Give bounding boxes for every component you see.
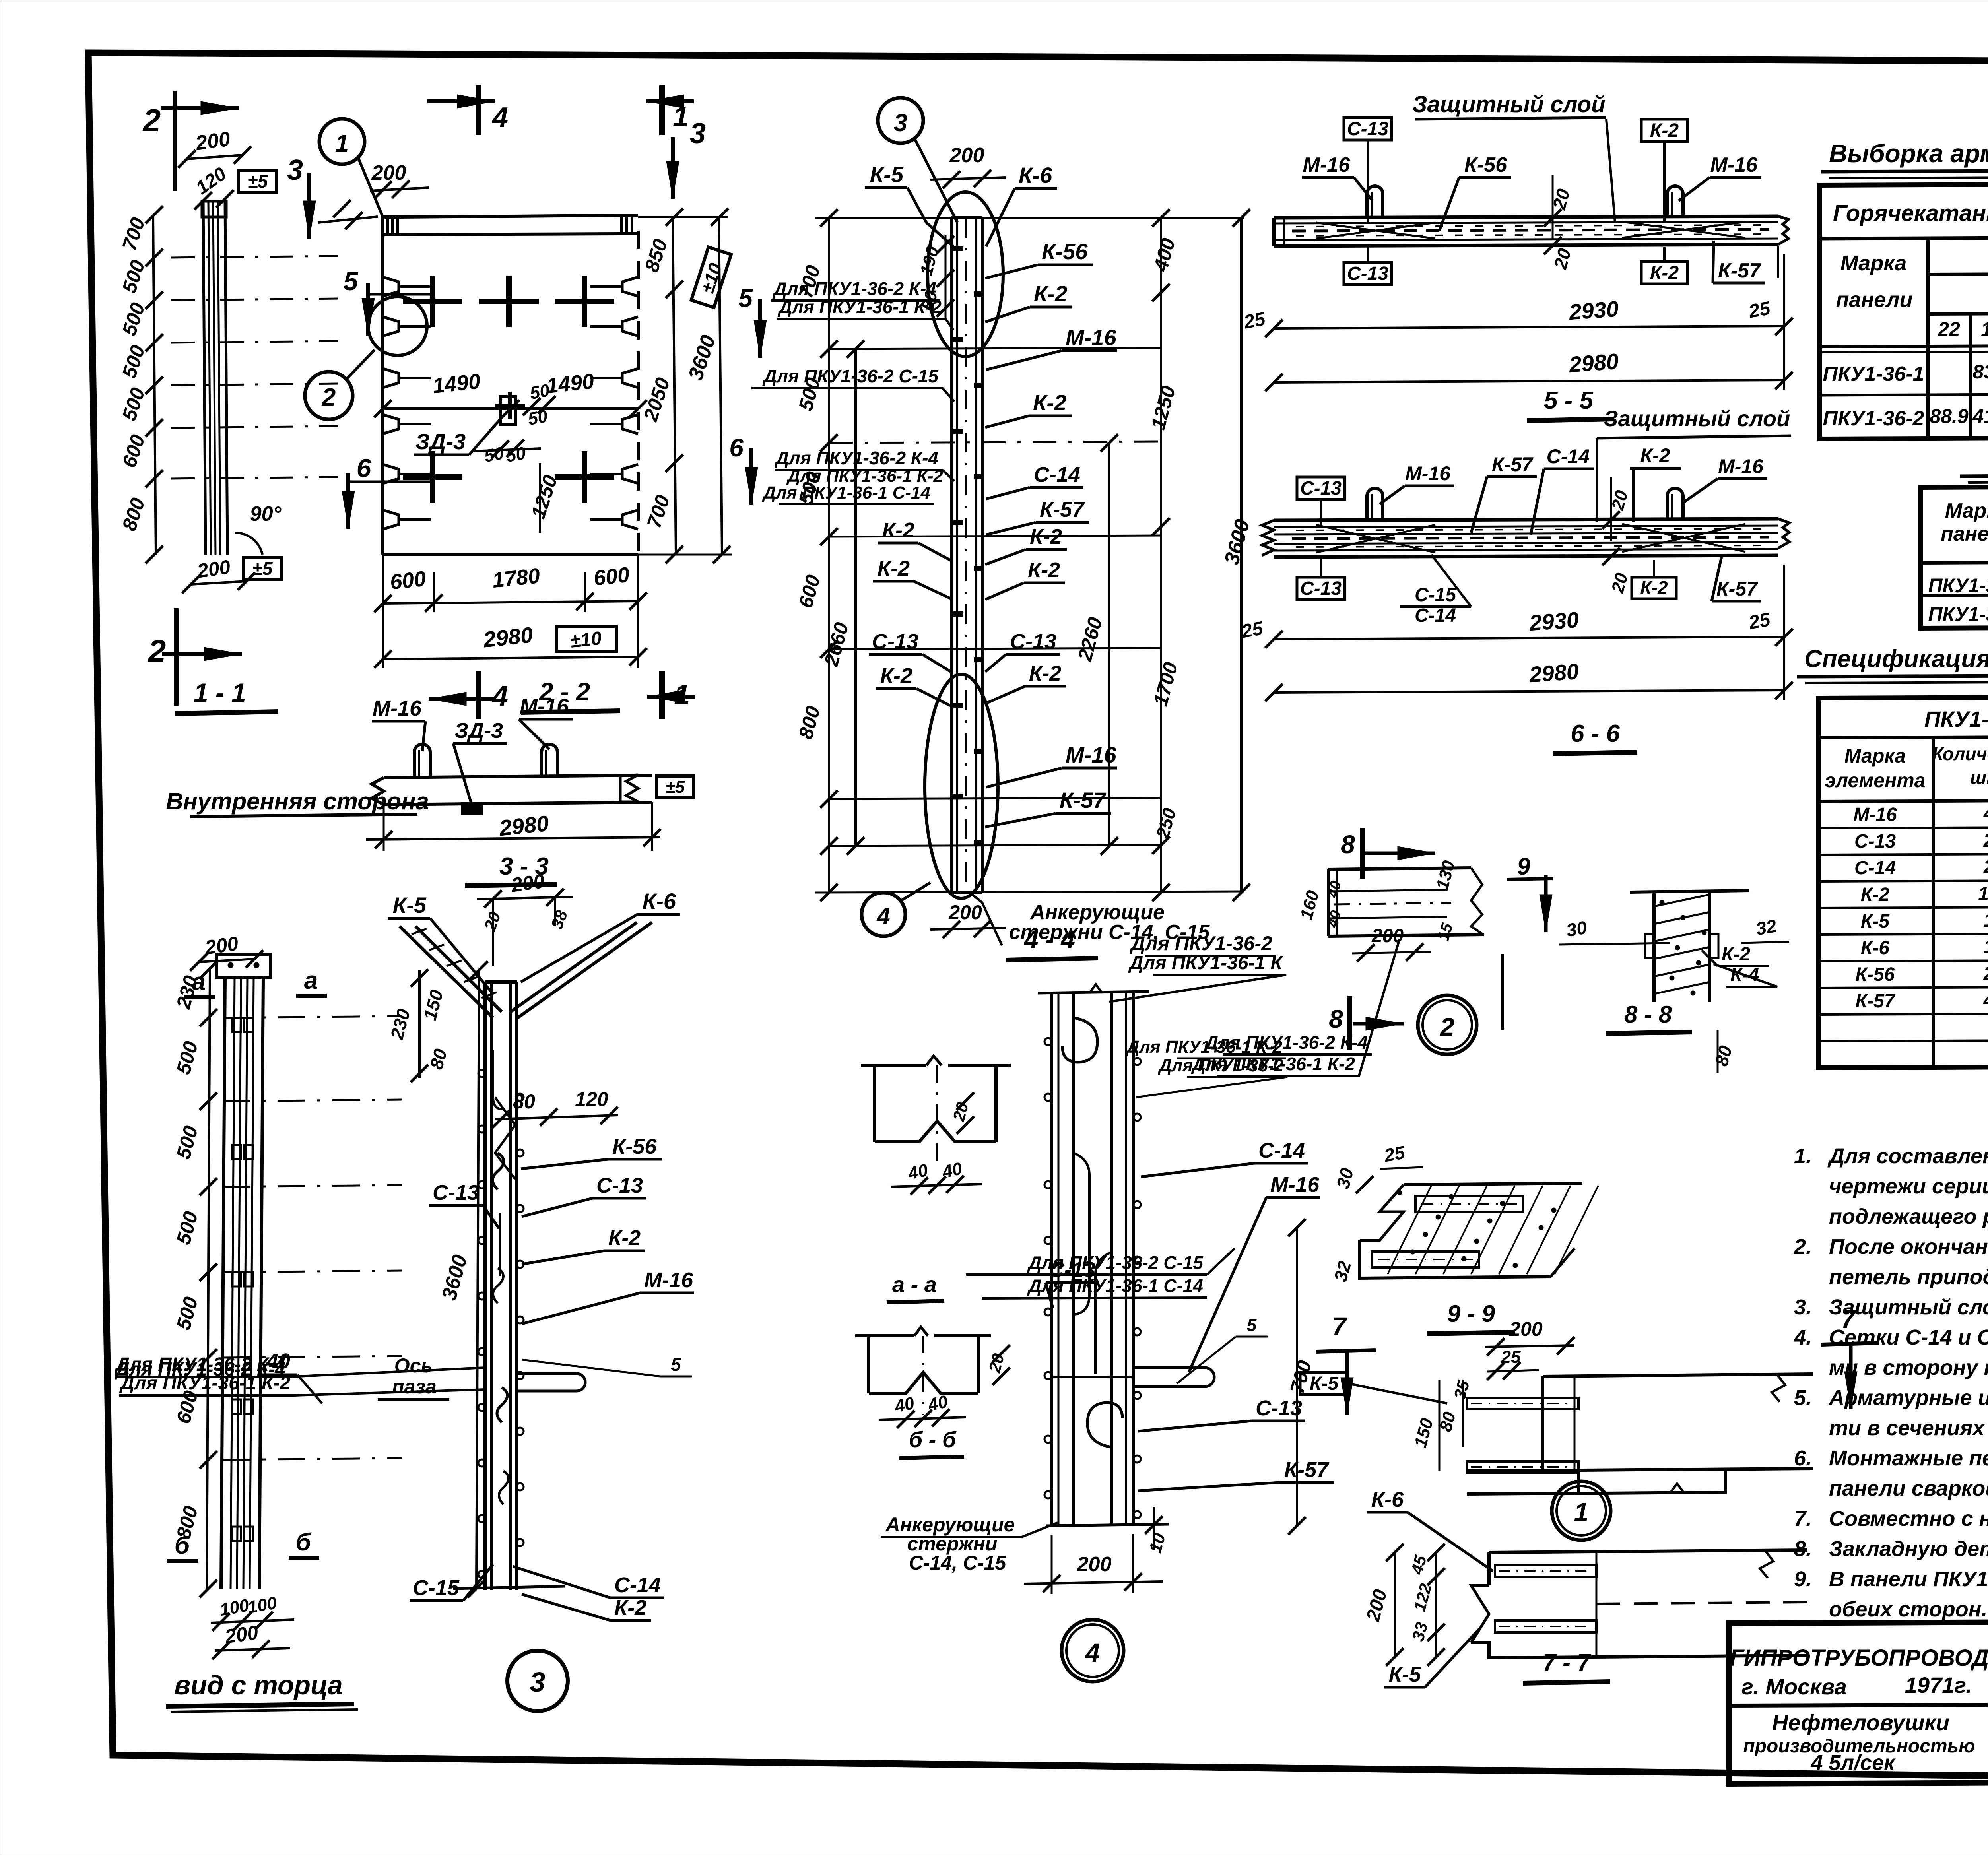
svg-text:С-14: С-14: [1034, 463, 1080, 487]
svg-text:Защитный слой бетона для армат: Защитный слой бетона для арматуры - 20мм…: [1829, 1295, 1988, 1319]
svg-text:6.: 6.: [1794, 1446, 1812, 1470]
view 3-3 bar: [384, 775, 652, 778]
svg-text:С-15: С-15: [1415, 584, 1456, 605]
table C sub header columns: [1932, 737, 1935, 1067]
svg-text:С-14: С-14: [1854, 858, 1896, 879]
svg-text:С-13: С-13: [1049, 1258, 1095, 1282]
svg-text:1490: 1490: [431, 369, 481, 398]
svg-text:9.: 9.: [1794, 1567, 1812, 1591]
section 4-4 panel strip: [950, 218, 953, 893]
svg-text:петель приподнимаются и поверх: петель приподнимаются и поверхность бето…: [1829, 1265, 1988, 1289]
detail 3 left arm: [400, 926, 493, 1018]
svg-text:Марка: Марка: [1844, 745, 1906, 767]
detail circle 1 callout: [319, 119, 365, 164]
svg-text:2: 2: [1983, 963, 1988, 984]
svg-text:Совместно с настоящим листом с: Совместно с настоящим листом см. лист АС…: [1829, 1507, 1988, 1531]
svg-text:1490: 1490: [545, 369, 595, 398]
svg-text:панели: панели: [1941, 522, 1988, 545]
detail 3 upper left dims 230 150 80: [418, 970, 421, 1078]
plan bottom dim 2980 ±10: [383, 657, 638, 659]
svg-text:22: 22: [1938, 318, 1960, 340]
detail 4 base: [1046, 1524, 1169, 1526]
plan view 2-2 panel outline: [381, 217, 384, 555]
plan left edge keys: [383, 277, 399, 296]
svg-text:ти в сечениях панели, условно: ти в сечениях панели, условно раздвинуты…: [1829, 1416, 1988, 1440]
lifting loop left on 3-3 bar: [414, 744, 430, 778]
detail 4 circle callout: [1062, 1620, 1124, 1682]
svg-text:83.0: 83.0: [1972, 361, 1988, 383]
svg-text:90°: 90°: [250, 503, 282, 526]
svg-text:200: 200: [194, 127, 232, 155]
svg-text:1: 1: [1574, 1497, 1589, 1527]
svg-text:К-57: К-57: [1492, 453, 1534, 475]
svg-text:25: 25: [1747, 298, 1772, 322]
detail 4 dim 700: [1296, 1228, 1298, 1526]
table C data rows left: [1818, 827, 1988, 828]
svg-text:С-14: С-14: [1415, 605, 1456, 626]
svg-text:5: 5: [1247, 1316, 1257, 1335]
svg-text:30: 30: [1565, 917, 1589, 941]
svg-text:1: 1: [674, 679, 690, 711]
svg-text:К-57: К-57: [1718, 259, 1761, 282]
svg-text:С-13: С-13: [1300, 578, 1342, 599]
detail 7 upper drawing: [1543, 1374, 1813, 1376]
plan interior crosses row 2: [403, 474, 462, 480]
svg-text:ПКУ1-36-2: ПКУ1-36-2: [1928, 603, 1988, 625]
svg-text:С-14: С-14: [614, 1573, 661, 1597]
embed plate ZD-3 in plan: [500, 397, 515, 425]
svg-text:Защитный слой: Защитный слой: [1412, 91, 1605, 117]
svg-text:М-16: М-16: [1270, 1173, 1320, 1197]
svg-text:3: 3: [530, 1667, 546, 1698]
lifting loops on 6-6: [1367, 488, 1383, 520]
svg-text:С-13: С-13: [1347, 118, 1388, 140]
table A header bottom double line: [1820, 344, 1988, 347]
detail b-b drawing: [855, 1334, 914, 1337]
svg-text:С-13: С-13: [1854, 831, 1896, 852]
svg-text:К-5: К-5: [1389, 1663, 1421, 1686]
svg-text:С-13: С-13: [433, 1181, 479, 1205]
label K-2 top of 5-5: [1641, 119, 1687, 142]
svg-text:600: 600: [592, 563, 631, 590]
svg-text:Защитный слой: Защитный слой: [1604, 406, 1790, 431]
section 4-4 chain 2660: [854, 349, 857, 846]
svg-text:К-2: К-2: [1650, 120, 1679, 141]
section 4-4 chain 3600: [1240, 218, 1242, 893]
svg-text:1971г.: 1971г.: [1905, 1673, 1972, 1698]
svg-text:б: б: [296, 1529, 312, 1556]
svg-text:К-2: К-2: [1650, 262, 1679, 283]
svg-text:25: 25: [1747, 609, 1772, 634]
svg-text:Арматурные изделия, располагае: Арматурные изделия, располагаемые в одно…: [1828, 1386, 1988, 1410]
label S-13 bottom of 5-5: [1344, 262, 1392, 285]
svg-text:4: 4: [1085, 1638, 1100, 1667]
svg-text:3: 3: [690, 118, 706, 149]
svg-text:К-5: К-5: [1861, 911, 1890, 932]
svg-text:4: 4: [1983, 803, 1988, 825]
svg-text:1: 1: [335, 130, 349, 157]
label S-13 top of 6-6: [1297, 477, 1345, 499]
svg-text:Монтажные петли прихватываются: Монтажные петли прихватываются к верхней…: [1829, 1446, 1988, 1470]
svg-text:К-2: К-2: [1033, 390, 1066, 415]
svg-text:К-2: К-2: [1640, 444, 1670, 467]
M-16 loop on cage: [517, 1374, 585, 1391]
svg-text:2: 2: [1440, 1013, 1454, 1041]
svg-text:ГИПРОТРУБОПРОВОД: ГИПРОТРУБОПРОВОД: [1730, 1645, 1988, 1671]
svg-text:3.: 3.: [1794, 1295, 1812, 1319]
svg-text:4: 4: [1983, 990, 1988, 1011]
svg-text:К-57: К-57: [1856, 991, 1896, 1012]
svg-text:2930: 2930: [1528, 607, 1580, 636]
svg-text:К-2: К-2: [880, 664, 912, 688]
svg-text:М-16: М-16: [644, 1268, 693, 1292]
svg-text:К-6: К-6: [1371, 1488, 1404, 1512]
label K-5 of 7 upper: [1300, 1372, 1348, 1395]
svg-text:ПКУ1-36-1: ПКУ1-36-1: [1928, 574, 1988, 597]
svg-text:200: 200: [1509, 1318, 1543, 1340]
section 4-4 chain 2260: [1108, 443, 1110, 846]
svg-text:К-2: К-2: [1029, 662, 1061, 685]
dim 2980 of 5-5: [1274, 380, 1784, 382]
plan top strip: [400, 215, 620, 217]
detail oval top of 4-4: [928, 192, 1003, 357]
svg-text:Для составления листов АС-25,: Для составления листов АС-25, АС-26 испо…: [1827, 1144, 1988, 1168]
svg-text:К-5: К-5: [870, 162, 904, 187]
end view splice marks: [232, 1018, 241, 1032]
svg-text:50: 50: [526, 406, 549, 429]
svg-text:панели: панели: [1836, 288, 1913, 312]
svg-text:8: 8: [1341, 830, 1355, 859]
svg-text:К-2: К-2: [1034, 281, 1067, 306]
svg-text:4 5л/сек: 4 5л/сек: [1810, 1751, 1896, 1775]
svg-text:Сетки С-14 и С-15 устанавливат: Сетки С-14 и С-15 устанавливать анкерующ…: [1829, 1325, 1988, 1349]
horizontal level lines of 1-1: [171, 256, 338, 258]
plan dim chain 3600: [719, 217, 722, 555]
svg-text:8: 8: [1329, 1005, 1343, 1033]
dim 2930 of 6-6: [1274, 637, 1784, 639]
section marker 1 top: [659, 85, 665, 135]
svg-text:М-16: М-16: [373, 697, 422, 720]
plan interior crosses row 1: [403, 299, 462, 304]
table B frame: [1921, 486, 1988, 628]
svg-text:К-5: К-5: [1310, 1373, 1339, 1394]
svg-text:25: 25: [1239, 618, 1265, 642]
svg-text:М-16: М-16: [1405, 462, 1451, 485]
section 6-6 bar: [1274, 519, 1778, 520]
end view left dim chain: [207, 970, 210, 1589]
tolerance box ±5 at 3-3 end: [657, 776, 693, 797]
detail a-a drawing: [861, 1064, 926, 1067]
section 6-6 splice X marks: [1316, 525, 1435, 553]
svg-text:элемента: элемента: [1825, 769, 1925, 792]
end view strip body: [221, 977, 225, 1589]
table C frame: [1818, 696, 1988, 1068]
svg-text:200: 200: [195, 556, 232, 582]
svg-text:7: 7: [1332, 1312, 1347, 1341]
svg-text:Для ПКУ1-36-1 К-2: Для ПКУ1-36-1 К-2: [1191, 1054, 1355, 1074]
table A frame: [1820, 183, 1988, 439]
svg-text:М-16: М-16: [1066, 325, 1116, 350]
svg-text:1: 1: [673, 101, 689, 133]
svg-text:К-2: К-2: [882, 518, 914, 542]
svg-text:4: 4: [876, 903, 890, 929]
svg-text:1: 1: [1984, 910, 1988, 931]
svg-text:8.: 8.: [1794, 1537, 1812, 1561]
lifting loop right on 3-3 bar: [542, 744, 557, 778]
svg-text:С-14: С-14: [1547, 445, 1590, 468]
svg-text:1780: 1780: [491, 564, 541, 592]
svg-text:С-13: С-13: [1256, 1396, 1302, 1420]
svg-text:К-2: К-2: [1028, 558, 1060, 582]
svg-text:2: 2: [1983, 830, 1988, 851]
svg-text:М-16: М-16: [1710, 153, 1758, 177]
svg-text:7.: 7.: [1794, 1507, 1812, 1531]
svg-text:9: 9: [1517, 853, 1530, 880]
section 8-8 wall: [1630, 891, 1749, 892]
svg-text:С-13: С-13: [596, 1174, 643, 1197]
svg-text:обеих сторон.: обеих сторон.: [1829, 1597, 1987, 1621]
dim 2930 of 5-5: [1274, 326, 1784, 328]
svg-text:М-16: М-16: [1853, 804, 1897, 825]
svg-text:200: 200: [509, 870, 546, 896]
svg-text:Количество: Количество: [1932, 743, 1988, 764]
svg-text:ПКУ1- 36-1: ПКУ1- 36-1: [1924, 706, 1988, 732]
tolerance box ±5 bottom: [243, 557, 282, 580]
plan bottom dim 600 1780 600: [383, 601, 638, 603]
plan right edge keys: [622, 277, 638, 296]
svg-text:Марка: Марка: [1945, 499, 1988, 522]
svg-text:2: 2: [1983, 857, 1988, 878]
detail 3 circle callout: [507, 1651, 568, 1711]
svg-text:4: 4: [491, 102, 508, 134]
svg-text:чертежи серии 3.900-2 выпуска: чертежи серии 3.900-2 выпуска 2, а также…: [1829, 1174, 1988, 1198]
svg-text:9 - 9: 9 - 9: [1447, 1300, 1495, 1327]
plan right dim chain 850 2050 700: [673, 217, 676, 555]
svg-text:М-16: М-16: [520, 695, 569, 718]
svg-text:ПКУ1-36-2: ПКУ1-36-2: [1823, 407, 1924, 430]
svg-text:паза: паза: [392, 1376, 437, 1398]
svg-text:32: 32: [1755, 915, 1778, 939]
svg-text:6 - 6: 6 - 6: [1571, 720, 1620, 747]
detail circle 3 callout top: [878, 98, 923, 143]
svg-text:88.9: 88.9: [1930, 405, 1969, 427]
svg-text:Ось: Ось: [394, 1354, 433, 1377]
1-1 strip panel edge view: [203, 201, 206, 555]
end view strip head: [217, 954, 270, 977]
svg-text:К-2: К-2: [614, 1596, 646, 1620]
svg-text:К-2: К-2: [608, 1226, 641, 1250]
svg-text:К-56: К-56: [612, 1135, 657, 1158]
section 4-4 guide lines: [829, 348, 1161, 349]
svg-text:С-14: С-14: [1258, 1139, 1305, 1162]
svg-text:К-2: К-2: [1722, 944, 1750, 965]
svg-text:5: 5: [344, 266, 359, 296]
svg-text:7 - 7: 7 - 7: [1543, 1649, 1592, 1676]
table A column lines: [1969, 314, 1972, 437]
svg-text:±10: ±10: [569, 628, 603, 652]
svg-text:М-16: М-16: [1718, 455, 1764, 477]
table B header bottom: [1921, 561, 1988, 563]
svg-text:ЗД-3: ЗД-3: [415, 429, 466, 454]
svg-text:10: 10: [1978, 883, 1988, 904]
svg-text:К-2: К-2: [1640, 577, 1668, 598]
svg-text:б - б: б - б: [909, 1427, 956, 1452]
svg-text:К-2: К-2: [1861, 884, 1889, 905]
svg-text:1 - 1: 1 - 1: [194, 678, 246, 707]
label S-13 top of 5-5: [1344, 118, 1392, 140]
svg-text:1.: 1.: [1794, 1144, 1812, 1168]
svg-text:После окончания бетонирования: После окончания бетонирования изделия ко…: [1829, 1235, 1988, 1259]
svg-text:Марка: Марка: [1840, 251, 1907, 275]
svg-text:5.: 5.: [1794, 1386, 1812, 1410]
dim 200 top of 1-1 strip: [187, 155, 243, 159]
tolerance box ±10 rotated: [691, 247, 731, 308]
embed plate under 3-3 bar: [462, 803, 481, 814]
svg-text:41.5: 41.5: [1972, 405, 1988, 427]
section 9 cut line: [1501, 954, 1504, 1030]
detail circle 1 callout (7-7): [1552, 1481, 1611, 1540]
end view level lines: [223, 1016, 402, 1018]
detail 4 top caps: [1038, 992, 1149, 993]
svg-text:5: 5: [738, 284, 753, 312]
detail circle 2 callout: [305, 372, 353, 419]
svg-text:ПКУ1-36-1: ПКУ1-36-1: [1823, 363, 1924, 386]
svg-text:б: б: [175, 1532, 190, 1559]
svg-text:С-14, С-15: С-14, С-15: [909, 1552, 1007, 1574]
label K-2 bottom of 6-6: [1632, 577, 1676, 599]
svg-text:3: 3: [287, 154, 303, 186]
plan fragment at 8: [1328, 868, 1471, 869]
section 9-9 hatch: [1388, 1186, 1431, 1274]
svg-text:Для ПКУ1-36-2: Для ПКУ1-36-2: [1129, 932, 1272, 955]
end view right dim 3600: [476, 970, 479, 1589]
svg-text:Спецификация марок арматурных: Спецификация марок арматурных изделий на…: [1804, 645, 1988, 673]
svg-text:панели сваркой или привязывают: панели сваркой или привязываются проволк…: [1829, 1477, 1988, 1500]
detail 3 cage hooks and studs: [493, 1153, 504, 1189]
svg-text:Закладную деталь маркиЗД-3 см.: Закладную деталь маркиЗД-3 см. на листе …: [1829, 1537, 1988, 1561]
detail 4 studs: [1044, 1038, 1052, 1045]
svg-text:Нефтеловушки: Нефтеловушки: [1772, 1710, 1949, 1735]
dim 2980 of 6-6: [1274, 690, 1784, 693]
svg-text:2980: 2980: [1568, 349, 1619, 377]
section 5-5 bar: [1274, 216, 1778, 218]
svg-text:а - а: а - а: [892, 1272, 937, 1297]
label K-2 bottom of 5-5: [1641, 262, 1687, 284]
svg-text:3: 3: [894, 109, 907, 137]
plan small cross mid: [495, 404, 525, 407]
section marker 4 bottom: [476, 671, 481, 719]
svg-text:1: 1: [1984, 937, 1988, 958]
svg-text:С-13: С-13: [1300, 478, 1342, 499]
svg-text:Для ПКУ1-36-2 К-4: Для ПКУ1-36-2 К-4: [1204, 1032, 1368, 1053]
svg-text:Для ПКУ1-36-1 К: Для ПКУ1-36-1 К: [1128, 953, 1284, 974]
svg-text:8 - 8: 8 - 8: [1624, 1001, 1672, 1028]
detail circle 2 callout (8): [1418, 995, 1477, 1054]
svg-text:Внутренняя сторона: Внутренняя сторона: [166, 788, 429, 815]
svg-text:2930: 2930: [1568, 296, 1619, 325]
svg-text:±5: ±5: [248, 171, 268, 192]
section 8-8 small rebars: [1645, 934, 1654, 958]
svg-text:5 - 5: 5 - 5: [1544, 387, 1594, 414]
detail oval bottom of 4-4: [925, 674, 998, 898]
section 4-4 rebar marks: [954, 246, 962, 250]
svg-text:шт.: шт.: [1970, 767, 1988, 788]
svg-text:6: 6: [729, 433, 744, 462]
svg-text:а: а: [304, 967, 318, 994]
svg-text:4.: 4.: [1794, 1325, 1812, 1349]
svg-text:16: 16: [1981, 318, 1988, 340]
detail 3 vertical cage: [483, 982, 487, 1590]
svg-text:600: 600: [389, 567, 427, 594]
detail 4 left bar: [1050, 993, 1053, 1526]
svg-text:С-13: С-13: [1347, 263, 1388, 284]
svg-text:К-6: К-6: [1019, 163, 1052, 188]
svg-text:С-15: С-15: [413, 1576, 460, 1600]
svg-text:Для ПКУ1-36-1 К-2: Для ПКУ1-36-1 К-2: [777, 297, 942, 317]
detail 3 cage base: [453, 1586, 565, 1589]
detail circle 2 around key: [368, 297, 427, 355]
section 4-4 right chain 400 1250 1700 250: [1160, 218, 1162, 893]
svg-text:2: 2: [148, 633, 166, 669]
section 5-5 splice X marks: [1316, 223, 1435, 239]
svg-text:±5: ±5: [252, 558, 273, 579]
svg-text:4: 4: [491, 680, 508, 712]
svg-text:6: 6: [357, 453, 372, 483]
svg-text:200: 200: [948, 901, 982, 924]
title block frame: [1729, 1620, 1988, 1784]
svg-text:К-57: К-57: [1716, 578, 1758, 600]
svg-text:2980: 2980: [482, 622, 534, 652]
dim 2980 of 3-3: [366, 837, 660, 840]
detail 4 right bar: [1110, 993, 1113, 1526]
section 4-4 left dim chain: [828, 218, 830, 893]
detail 4 hooks: [1062, 1018, 1097, 1062]
svg-text:вид с торца: вид с торца: [174, 1670, 343, 1700]
svg-text:±5: ±5: [666, 777, 685, 797]
label S-13 bottom of 6-6: [1297, 577, 1345, 600]
svg-text:К-57: К-57: [1284, 1458, 1330, 1482]
svg-text:Для ПКУ1-36-2 С-15: Для ПКУ1-36-2 С-15: [762, 366, 939, 386]
tolerance box ±5 top: [239, 170, 277, 192]
svg-text:4 - 4: 4 - 4: [1023, 925, 1075, 954]
svg-text:г. Москва: г. Москва: [1741, 1674, 1847, 1699]
section 9-9 drawing: [1404, 1183, 1582, 1185]
svg-text:200: 200: [949, 144, 984, 167]
svg-text:2: 2: [322, 384, 336, 411]
section marker 1 bottom: [659, 671, 665, 719]
svg-text:К-6: К-6: [1861, 937, 1889, 959]
svg-text:подлежащего рассмотрению Госст: подлежащего рассмотрению Госстроем СССР …: [1829, 1205, 1988, 1228]
svg-text:К-56: К-56: [1042, 239, 1088, 264]
svg-text:Выборка арматурной стали на 1: Выборка арматурной стали на 1 панель кг: [1829, 139, 1988, 168]
svg-text:25: 25: [1242, 309, 1267, 333]
svg-text:ми в сторону нижнего торца пан: ми в сторону нижнего торца панели.: [1829, 1356, 1988, 1380]
1-1 strip left dimension chain: [153, 215, 156, 555]
svg-text:2.: 2.: [1794, 1235, 1812, 1259]
svg-text:К-57: К-57: [1060, 788, 1107, 813]
svg-text:К-57: К-57: [1040, 498, 1085, 522]
svg-text:120: 120: [575, 1088, 608, 1110]
detail 3 K-56 zigzag: [495, 1097, 515, 1179]
M-16 loop of detail 4: [1133, 1368, 1214, 1387]
svg-text:200: 200: [371, 161, 406, 184]
svg-text:М-16: М-16: [1303, 153, 1351, 177]
svg-text:К-6: К-6: [643, 889, 676, 914]
svg-text:В панели ПКУ1-36-2 детали ЗД-3: В панели ПКУ1-36-2 детали ЗД-3 закладыва…: [1829, 1567, 1988, 1591]
svg-text:К-5: К-5: [393, 893, 427, 918]
svg-text:25: 25: [1382, 1142, 1407, 1166]
detail circle 4 callout of 4-4: [862, 893, 905, 936]
